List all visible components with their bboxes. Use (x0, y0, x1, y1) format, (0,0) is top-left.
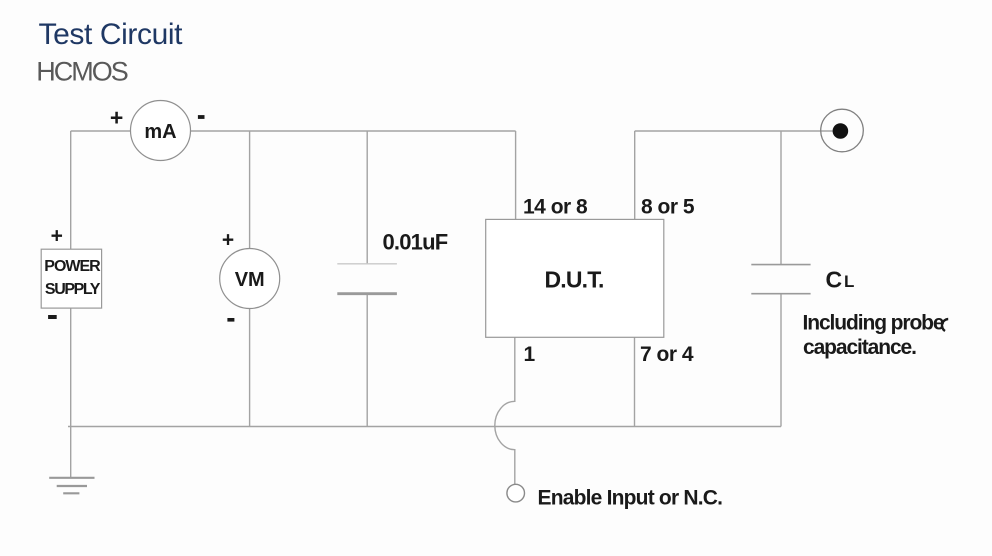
ammeter mA (131, 101, 191, 161)
svg-text:+: + (51, 225, 63, 248)
svg-text:+: + (222, 229, 234, 252)
wire: 0.01uF capacitor lower vertical (366, 294, 368, 427)
wire: DUT pin 8-or-5 vertical (634, 131, 636, 219)
power supply box (41, 249, 101, 308)
svg-text:VM: VM (235, 269, 265, 291)
svg-text:SUPPLY: SUPPLY (45, 281, 101, 298)
wire: DUT pin 7-or-4 vertical (634, 337, 636, 426)
capacitor CL bottom plate (751, 293, 810, 295)
svg-text:14 or 8: 14 or 8 (523, 196, 588, 219)
svg-text:L: L (844, 272, 854, 291)
wire: top-left bus (71, 130, 516, 132)
wire: CL upper vertical (780, 131, 782, 265)
wire: bottom bus (68, 426, 781, 428)
capacitor CL top plate (751, 264, 810, 266)
svg-text:8 or 5: 8 or 5 (641, 196, 695, 219)
wire: top-right bus (635, 130, 834, 132)
svg-text:Including probe: Including probe (803, 312, 944, 335)
minus label for mA (198, 115, 205, 119)
capacitor 0.01uF top plate (337, 263, 397, 265)
ground (49, 478, 94, 494)
svg-text:1: 1 (524, 343, 536, 366)
svg-text:0.01uF: 0.01uF (383, 230, 448, 255)
minus label for power supply (48, 315, 57, 319)
wire: CL lower vertical (780, 294, 782, 427)
wire: DUT pin 14-or-8 vertical (515, 131, 517, 219)
svg-text:POWER: POWER (44, 258, 101, 275)
svg-text:7 or 4: 7 or 4 (640, 343, 694, 366)
DUT box (486, 219, 664, 337)
capacitor 0.01uF bottom plate (337, 292, 397, 295)
note: Including probe capacitance. (803, 312, 949, 360)
wire: DUT pin 1 vertical with crossover hook (495, 337, 515, 484)
minus label for VM (227, 318, 234, 322)
wire: 0.01uF capacitor upper vertical (366, 131, 368, 264)
value label CL (826, 267, 855, 293)
svg-text:C: C (826, 267, 843, 293)
svg-text:+: + (110, 105, 123, 131)
wire: power supply lower vertical to ground (70, 308, 72, 478)
svg-text:Test Circuit: Test Circuit (39, 18, 184, 51)
svg-text:capacitance.: capacitance. (803, 336, 916, 359)
voltmeter VM (220, 249, 280, 309)
wire: power supply upper vertical (70, 131, 72, 249)
enable input open terminal (507, 484, 525, 502)
output terminal (821, 109, 864, 152)
svg-text:D.U.T.: D.U.T. (544, 267, 603, 293)
svg-text:HCMOS: HCMOS (36, 57, 127, 87)
svg-text:Enable Input or N.C.: Enable Input or N.C. (538, 487, 723, 510)
wire: VM branch vertical (249, 131, 251, 427)
svg-text:mA: mA (144, 121, 176, 143)
